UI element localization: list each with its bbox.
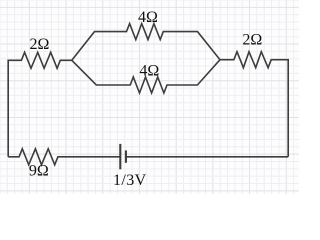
svg-text:9Ω: 9Ω — [29, 163, 49, 180]
svg-text:2Ω: 2Ω — [242, 32, 262, 49]
svg-text:4Ω: 4Ω — [139, 62, 159, 79]
svg-text:1/3V: 1/3V — [113, 172, 147, 189]
svg-text:2Ω: 2Ω — [29, 36, 49, 53]
svg-text:4Ω: 4Ω — [138, 9, 158, 26]
